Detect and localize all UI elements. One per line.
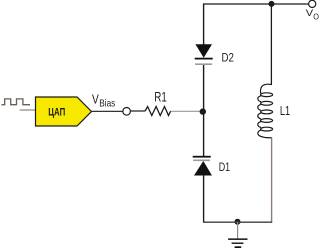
svg-text:ЦАП: ЦАП [48, 106, 65, 118]
svg-text:V: V [92, 93, 99, 107]
svg-text:Bias: Bias [99, 98, 115, 110]
svg-text:D2: D2 [222, 50, 235, 64]
svg-text:L1: L1 [280, 104, 290, 118]
svg-text:D1: D1 [219, 160, 231, 174]
svg-text:O: O [313, 13, 319, 22]
svg-text:V: V [306, 8, 313, 18]
svg-text:R1: R1 [154, 89, 167, 105]
